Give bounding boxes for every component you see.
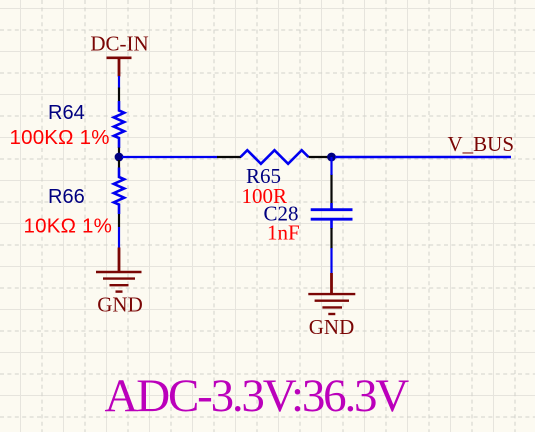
wire: [330, 248, 332, 274]
svg-text:10KΩ 1%: 10KΩ 1%: [24, 215, 113, 238]
wire: [118, 76, 120, 89]
svg-text:GND: GND: [97, 293, 143, 317]
svg-text:100KΩ 1%: 100KΩ 1%: [10, 126, 110, 149]
wire: [122, 156, 218, 158]
wire: [118, 227, 120, 248]
resistor R66: [114, 160, 124, 227]
svg-text:1nF: 1nF: [267, 221, 300, 245]
junction node dot right: [327, 153, 336, 162]
wire: [330, 157, 332, 175]
svg-text:ADC-3.3V:36.3V: ADC-3.3V:36.3V: [105, 370, 410, 422]
capacitor C28: [311, 174, 353, 249]
ground symbol right: [308, 273, 355, 314]
ground symbol left: [96, 248, 142, 292]
wire: [335, 156, 511, 158]
svg-text:R64: R64: [48, 102, 85, 124]
svg-text:V_BUS: V_BUS: [448, 132, 515, 156]
svg-text:DC-IN: DC-IN: [90, 32, 148, 56]
resistor R64: [114, 88, 124, 155]
svg-text:GND: GND: [309, 315, 355, 339]
svg-text:R66: R66: [48, 186, 85, 208]
junction node dot left: [115, 153, 124, 162]
power port DC-IN bar symbol: [107, 58, 132, 77]
resistor R65: [217, 150, 328, 164]
